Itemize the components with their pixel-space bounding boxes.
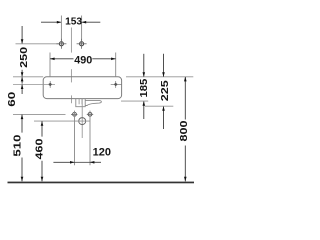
- dim 120: extension line right: [89, 111, 91, 166]
- drain circle centerline left (reference for 460): [34, 120, 90, 122]
- dim 490: left arrowhead: [50, 58, 55, 61]
- drain centerline vertical: [81, 99, 83, 138]
- dim 153: right lead line: [82, 21, 100, 23]
- dim 153: right arrowhead: [82, 21, 87, 24]
- dim 250: top outside arrow (points down to tap centerline): [21, 26, 23, 44]
- dim 510: vertical line lower segment: [21, 158, 23, 182]
- floor line: [8, 182, 195, 184]
- drain circle: [79, 118, 86, 125]
- dim 490: right arrowhead: [111, 58, 116, 61]
- dim 120: middle segment: [75, 161, 90, 163]
- dim 120: right tail: [90, 161, 101, 163]
- trap outlet: [85, 101, 101, 106]
- dim 185: bottom tail: [143, 101, 145, 119]
- svg-text:60: 60: [7, 91, 18, 107]
- basin outline: [43, 77, 121, 99]
- svg-text:153: 153: [65, 17, 82, 28]
- small hole right (crosshair circle): [88, 112, 92, 116]
- dim 185: level reference line: [121, 100, 148, 102]
- fixing hole left (cross) with left reference line: [13, 83, 55, 85]
- dim 510: vertical line upper segment: [21, 115, 23, 133]
- dim 225: top tail: [163, 54, 165, 77]
- dim 120: left tail: [53, 161, 74, 163]
- svg-text:185: 185: [139, 78, 150, 97]
- dim 60: top tail: [21, 70, 23, 77]
- dim 800: vertical line bottom segment: [184, 146, 186, 182]
- rim line right extension (reference for 800): [126, 76, 193, 78]
- dim 153: extension line left: [60, 16, 62, 41]
- dim 490: extension line left: [49, 53, 51, 77]
- dim 225: bottom tail: [163, 106, 165, 129]
- tap hole right (crosshair circle): [80, 42, 84, 46]
- svg-text:460: 460: [35, 138, 46, 159]
- dim 490: line right segment: [92, 58, 115, 60]
- dim 800: vertical line top segment: [184, 77, 186, 120]
- basin interior centerline tick: [71, 95, 73, 103]
- svg-text:250: 250: [19, 46, 30, 67]
- mixer centerline (vertical, between tap holes): [70, 28, 72, 53]
- dim 250: bottom outside arrow (points up to rim): [21, 77, 23, 84]
- fixing hole right (cross): [111, 83, 122, 85]
- tap hole left (crosshair circle): [59, 42, 63, 46]
- svg-text:510: 510: [12, 134, 23, 157]
- dim 153: left lead line: [41, 21, 61, 23]
- rim line left extension: [13, 76, 43, 78]
- dim 153: extension line right: [81, 16, 83, 41]
- dim 460: vertical line lower segment: [41, 161, 43, 182]
- dim 120: extension line left: [74, 111, 76, 166]
- svg-text:225: 225: [160, 80, 171, 101]
- dim 490: extension line right: [115, 53, 117, 77]
- svg-text:120: 120: [93, 147, 111, 159]
- tap holes centerline (horizontal reference at y=43.8): [16, 43, 60, 45]
- small holes centerline (reference for 510): [13, 113, 66, 115]
- drain tailpiece: [76, 99, 85, 107]
- small hole left (crosshair circle): [73, 112, 77, 116]
- dim 185: top tail: [143, 54, 145, 77]
- svg-text:490: 490: [74, 54, 92, 66]
- dim 60: bottom tail: [21, 85, 23, 94]
- dim 460: vertical line upper segment: [41, 121, 43, 136]
- dim 225: level reference line: [145, 105, 173, 107]
- dim 490: line left segment: [50, 58, 74, 60]
- dim 153: left arrowhead: [57, 21, 62, 24]
- svg-text:800: 800: [179, 120, 190, 141]
